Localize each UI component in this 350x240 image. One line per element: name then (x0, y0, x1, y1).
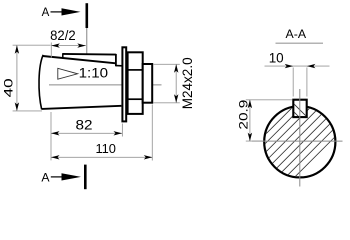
key hatch (277, 95, 315, 125)
cutting plane trace (thin) (86, 28, 88, 54)
dim 82 extension right (121, 124, 123, 137)
dim 10 extension right (306, 68, 308, 97)
dim 82 arrow right (114, 131, 123, 135)
shaft break line (39, 55, 43, 110)
key square outline (293, 100, 306, 117)
dim M24x2.0 extension top (154, 63, 180, 65)
key left end (62, 53, 64, 58)
key square (white fill covers circle arc) (293, 100, 306, 117)
dim M24 arrow down (174, 94, 178, 103)
svg-text:1:10: 1:10 (79, 66, 109, 81)
nut facet line (upper) (128, 69, 143, 71)
dim 110 extension right (151, 105, 153, 161)
taper symbol triangle (58, 68, 78, 79)
svg-text:40: 40 (2, 78, 16, 97)
dim M24x2.0 extension bottom (154, 102, 180, 104)
collar (washer) (122, 47, 126, 121)
svg-text:A: A (41, 171, 50, 185)
dim 20.9 extension top (246, 99, 292, 101)
key top edge (63, 53, 116, 56)
svg-text:110: 110 (95, 141, 116, 156)
dim 82/2 arrow right (77, 43, 86, 47)
key right end (115, 54, 117, 66)
cone bottom edge (42, 106, 122, 109)
shaft circle (264, 106, 335, 177)
dim 110 arrow left (51, 155, 60, 159)
section arrow leader (top) (51, 11, 63, 13)
svg-text:10: 10 (269, 51, 284, 66)
svg-text:82: 82 (76, 116, 93, 132)
hatching of shaft section (213, 97, 350, 187)
dim 20.9 line (249, 100, 251, 141)
centerline of shaft (49, 84, 162, 86)
dim 82/2 line (51, 45, 86, 47)
dim 82/2 arrow left (51, 43, 60, 47)
cutting plane thick mark (bottom) (84, 165, 87, 190)
section arrow head (top) (62, 8, 81, 15)
svg-text:A-A: A-A (286, 29, 307, 41)
dim 40 line (16, 45, 18, 111)
dim 20.9 extension bottom (246, 140, 262, 142)
svg-text:20.9: 20.9 (236, 99, 250, 129)
nut facet line (lower) (128, 98, 143, 100)
dim 40 extension top (13, 44, 51, 46)
vertical centerline of section (299, 89, 301, 187)
horizontal centerline of section (252, 140, 343, 142)
svg-text:M24x2.0: M24x2.0 (180, 57, 195, 109)
dim 82/2 extension (50, 43, 52, 58)
dim 40 arrow up (15, 45, 19, 54)
dim 10 arrow (right, pointing left) (307, 64, 316, 68)
section arrow leader (bottom) (51, 176, 62, 178)
section arrow head (bottom) (62, 173, 82, 180)
dim 10 extension left (292, 68, 294, 97)
section title underline (276, 42, 324, 44)
dim 110 arrow right (144, 155, 153, 159)
dim 20.9 arrow down (248, 133, 252, 142)
svg-text:82/2: 82/2 (50, 28, 76, 43)
nut body (128, 52, 143, 114)
dim M24 arrow up (174, 64, 178, 73)
cone top edge (43, 56, 116, 63)
keyway bottom edge (beyond key end) (116, 65, 122, 67)
cutting plane thick mark (top) (86, 3, 89, 28)
dim 40 arrow down (15, 102, 19, 111)
threaded end cylinder (143, 64, 153, 103)
dim M24x2.0 line (175, 64, 177, 103)
dim 82 line (51, 132, 122, 134)
dim 10 line (265, 65, 330, 67)
dim 82 arrow left (51, 131, 60, 135)
svg-text:A: A (42, 7, 50, 19)
dim 110 line (51, 156, 152, 158)
dim 10 arrow (left, pointing right) (285, 64, 294, 68)
dim 82 extension left (50, 112, 52, 160)
dim 20.9 arrow up (248, 100, 252, 109)
dim 40 extension bottom (13, 110, 42, 112)
